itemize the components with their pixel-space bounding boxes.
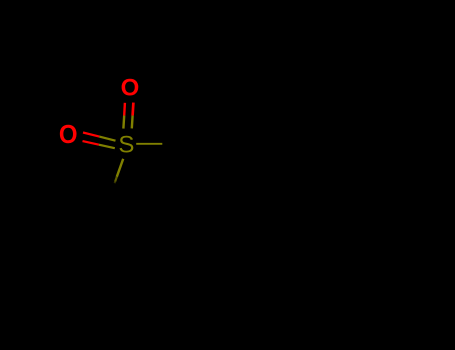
svg-text:O: O bbox=[59, 120, 78, 149]
svg-text:S: S bbox=[118, 132, 134, 159]
svg-text:O: O bbox=[121, 75, 140, 102]
